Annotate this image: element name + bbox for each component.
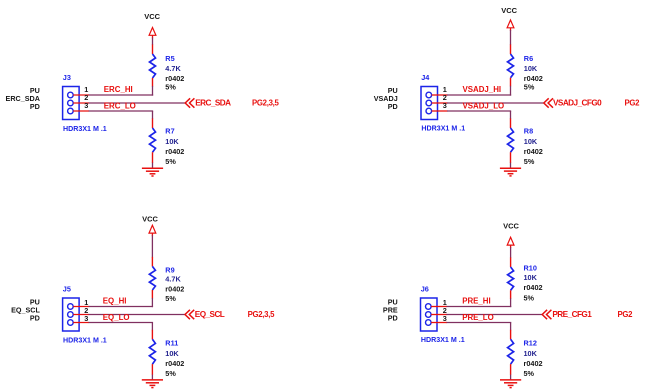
svg-text:5%: 5% (524, 369, 535, 378)
ground symbol (500, 380, 521, 388)
wire net PRE_CFG1 (447, 314, 543, 316)
connector J5 (63, 298, 90, 331)
svg-text:ERC_HI: ERC_HI (104, 85, 133, 94)
off-page connector PRE_CFG1 (542, 310, 551, 319)
svg-text:EQ_SCL: EQ_SCL (195, 310, 225, 319)
svg-text:ERC_SDA: ERC_SDA (195, 99, 231, 108)
resistor R5 (150, 45, 156, 87)
wire net EQ_LO (89, 322, 153, 324)
svg-text:5%: 5% (165, 369, 176, 378)
wire R6 to pin 1 node (510, 86, 512, 96)
svg-text:PD: PD (388, 102, 398, 111)
svg-text:3: 3 (84, 101, 88, 110)
svg-text:r0402: r0402 (165, 147, 184, 156)
power symbol VCC (507, 20, 514, 31)
svg-text:PD: PD (30, 102, 40, 111)
svg-text:10K: 10K (165, 137, 179, 146)
wire R11 to ground (151, 375, 153, 380)
svg-text:HDR3X1 M .1: HDR3X1 M .1 (63, 337, 107, 345)
wire VCC to R6 (510, 30, 512, 45)
wire VCC to R5 (152, 38, 154, 46)
svg-text:PD: PD (388, 314, 398, 323)
svg-text:EQ_HI: EQ_HI (103, 296, 127, 305)
svg-text:4.7K: 4.7K (165, 64, 181, 73)
svg-text:3: 3 (84, 314, 88, 323)
wire R5 to pin 1 node (152, 86, 154, 96)
off-page connector ERC_SDA (185, 98, 194, 107)
wire pin 3 node to R11 (151, 323, 153, 331)
svg-text:R5: R5 (165, 54, 174, 63)
svg-text:J5: J5 (63, 284, 71, 293)
svg-text:5%: 5% (524, 83, 535, 92)
off-page connector VSADJ_CFG0 (544, 98, 553, 107)
svg-text:R9: R9 (165, 265, 174, 274)
wire net PRE_LO (447, 322, 512, 324)
svg-text:R8: R8 (524, 127, 533, 136)
wire VCC to R9 (151, 235, 153, 257)
resistor R6 (508, 45, 514, 87)
svg-text:PG2: PG2 (625, 98, 641, 107)
svg-text:EQ_LO: EQ_LO (103, 313, 130, 322)
connector J6 (421, 298, 448, 331)
svg-text:r0402: r0402 (165, 285, 184, 294)
svg-text:J6: J6 (421, 284, 429, 293)
svg-text:10K: 10K (524, 349, 538, 358)
svg-text:5%: 5% (524, 157, 535, 166)
svg-text:VCC: VCC (503, 221, 519, 230)
svg-text:PG2,3,5: PG2,3,5 (248, 310, 275, 319)
svg-text:R10: R10 (524, 264, 537, 273)
ground symbol (500, 168, 521, 176)
svg-text:VSADJ_CFG0: VSADJ_CFG0 (553, 99, 602, 108)
wire pin 3 node to R7 (152, 111, 154, 119)
ground symbol (142, 380, 163, 388)
wire net ERC_SDA (89, 102, 186, 104)
svg-text:3: 3 (443, 314, 447, 323)
svg-text:PG2: PG2 (618, 310, 634, 319)
ground symbol (142, 168, 163, 176)
svg-text:VCC: VCC (142, 214, 158, 223)
svg-text:5%: 5% (165, 83, 176, 92)
svg-text:J4: J4 (421, 73, 430, 82)
svg-text:HDR3X1 M .1: HDR3X1 M .1 (421, 336, 465, 344)
wire net EQ_HI (89, 306, 153, 308)
wire pin 3 node to R12 (510, 323, 512, 331)
resistor R8 (508, 119, 514, 164)
wire R9 to pin 1 node (151, 298, 153, 307)
svg-text:r0402: r0402 (524, 283, 543, 292)
wire net EQ_SCL (89, 314, 185, 316)
wire R7 to ground (152, 163, 154, 169)
svg-text:HDR3X1 M .1: HDR3X1 M .1 (63, 125, 107, 133)
svg-text:10K: 10K (165, 349, 179, 358)
svg-text:PRE_HI: PRE_HI (462, 296, 491, 305)
svg-text:VSADJ_HI: VSADJ_HI (463, 85, 502, 94)
wire R12 to ground (510, 375, 512, 380)
power symbol VCC (149, 28, 156, 39)
svg-text:10K: 10K (524, 64, 538, 73)
svg-text:r0402: r0402 (524, 359, 543, 368)
svg-text:PRE_CFG1: PRE_CFG1 (552, 310, 592, 319)
power symbol VCC (507, 237, 514, 248)
power symbol VCC (149, 225, 156, 236)
wire net VSADJ_HI (447, 94, 511, 96)
wire net ERC_HI (89, 94, 154, 96)
svg-text:PG2,3,5: PG2,3,5 (252, 98, 279, 107)
svg-text:5%: 5% (165, 157, 176, 166)
svg-text:J3: J3 (63, 73, 71, 82)
svg-text:R6: R6 (524, 54, 533, 63)
resistor R9 (149, 257, 155, 299)
svg-text:4.7K: 4.7K (165, 275, 181, 284)
svg-text:ERC_LO: ERC_LO (104, 102, 136, 111)
svg-text:R11: R11 (165, 339, 178, 348)
svg-text:VCC: VCC (501, 6, 517, 15)
wire net VSADJ_CFG0 (447, 102, 544, 104)
svg-text:VCC: VCC (144, 12, 160, 21)
svg-text:r0402: r0402 (165, 359, 184, 368)
wire net PRE_HI (447, 306, 512, 308)
svg-text:HDR3X1 M .1: HDR3X1 M .1 (421, 125, 465, 133)
connector J4 (421, 87, 448, 120)
resistor R7 (150, 119, 156, 164)
svg-text:3: 3 (443, 101, 447, 110)
resistor R10 (508, 258, 514, 299)
connector J3 (63, 87, 90, 120)
svg-text:10K: 10K (524, 137, 538, 146)
svg-text:VSADJ_LO: VSADJ_LO (463, 102, 505, 111)
svg-text:10K: 10K (524, 273, 538, 282)
svg-text:PRE_LO: PRE_LO (462, 313, 494, 322)
wire VCC to R10 (510, 247, 512, 258)
svg-text:5%: 5% (524, 294, 535, 303)
wire R10 to pin 1 node (510, 298, 512, 307)
svg-text:R7: R7 (165, 127, 174, 136)
off-page connector EQ_SCL (185, 310, 194, 319)
wire net VSADJ_LO (447, 110, 511, 112)
svg-text:5%: 5% (165, 294, 176, 303)
resistor R11 (149, 330, 155, 375)
wire pin 3 node to R8 (510, 111, 512, 119)
wire R8 to ground (510, 163, 512, 169)
svg-text:R12: R12 (524, 339, 537, 348)
svg-text:r0402: r0402 (524, 147, 543, 156)
resistor R12 (508, 330, 514, 375)
svg-text:PD: PD (30, 314, 40, 323)
wire net ERC_LO (89, 110, 154, 112)
